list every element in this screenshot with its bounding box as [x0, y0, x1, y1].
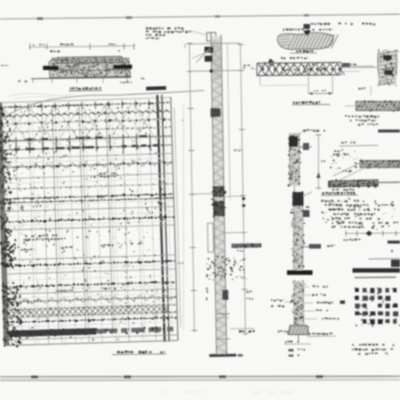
- framing plan caption: [112, 351, 166, 355]
- sheet top border line: [0, 14, 400, 20]
- sheet bottom border band: [0, 375, 400, 380]
- hardware schedule table: [340, 287, 400, 326]
- top brace beam detail: [243, 57, 374, 105]
- intermediate dimension ticks: [178, 104, 184, 330]
- lower column detail: [271, 191, 339, 357]
- right edge post detail: [341, 49, 399, 95]
- title line right top: [283, 23, 375, 31]
- note text block: [146, 27, 191, 39]
- upper column detail: [288, 129, 326, 191]
- roadway deck section right: [329, 130, 400, 191]
- bolt detail dimension row: [343, 231, 400, 278]
- deck cross-section detail: [1, 43, 135, 99]
- mast elevation: [185, 30, 264, 358]
- washer plate detail: [345, 100, 400, 126]
- timber top-chord section detail: [278, 30, 339, 53]
- notes bottom right: [352, 344, 394, 355]
- paper ghost marks bottom: [153, 391, 292, 394]
- framing plan: [0, 76, 212, 348]
- lower right connection detail with notes: [321, 192, 398, 230]
